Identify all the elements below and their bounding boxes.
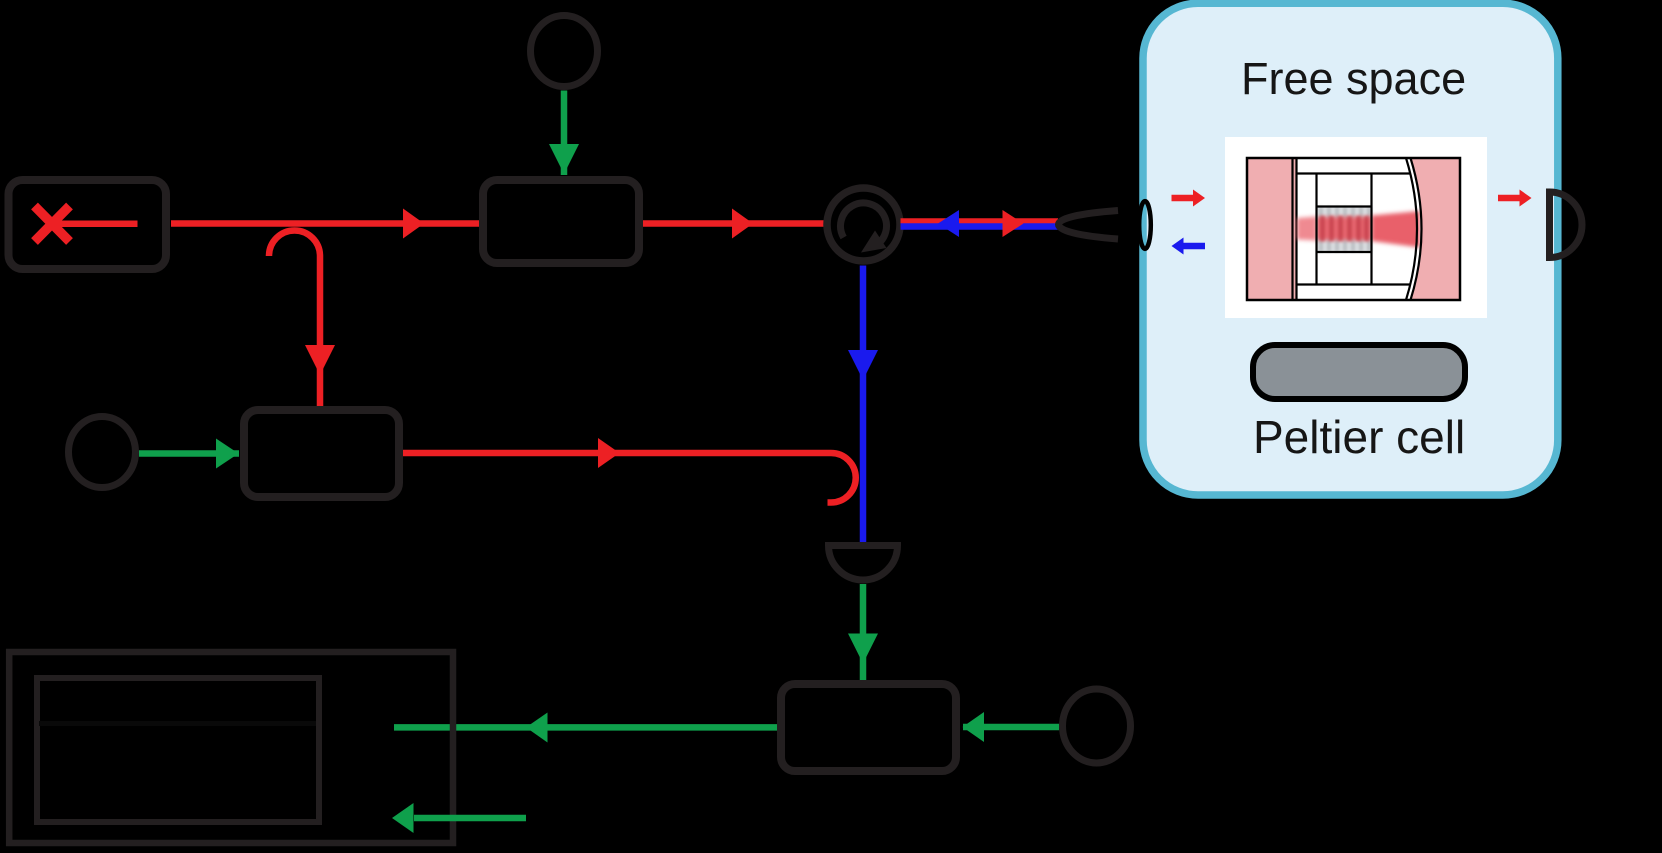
arrow green left 1 — [963, 712, 985, 742]
svg-text:Peltier cell: Peltier cell — [1253, 411, 1465, 463]
driver circle O1 — [531, 16, 598, 87]
beam — [1297, 207, 1420, 253]
wire red circulator to collimator — [901, 218, 1059, 225]
modulator box U1 — [483, 180, 639, 263]
wire blue collimator to circulator — [901, 223, 1059, 230]
arrow green right 1 — [216, 439, 239, 469]
svg-text:Free space: Free space — [1241, 53, 1466, 104]
arrow blue down — [848, 350, 878, 380]
circulator C1 arrowhead — [861, 231, 887, 253]
arrow red right 2 — [732, 209, 753, 239]
controller screen — [37, 678, 319, 822]
wire green PD1 to box U3 — [860, 584, 867, 680]
wire green O3 to U3 — [963, 724, 1059, 731]
wire green O1 to U1 — [561, 91, 568, 176]
controller outer box — [9, 652, 453, 843]
small arrow red in (left) — [1172, 190, 1206, 207]
arrow green left 3 — [392, 803, 414, 833]
wire red main line laser to circulator — [171, 220, 481, 227]
arrow green down 2 — [848, 634, 878, 664]
circulator C1 outer — [827, 188, 900, 261]
wire blue circulator down to PD — [860, 266, 867, 546]
wire red U2 to hook — [403, 450, 831, 457]
photodetector D right — [1550, 192, 1583, 258]
laser X symbol — [35, 206, 70, 242]
arrow red right 3 — [1003, 210, 1024, 237]
wire green U3 to controller — [394, 724, 777, 731]
mixer box U3 — [781, 684, 956, 771]
white panel — [1225, 137, 1487, 318]
free space enclosure — [1143, 3, 1558, 495]
tap hook 2 — [828, 453, 856, 503]
arrow blue left — [938, 210, 959, 237]
modulator box U2 — [244, 410, 399, 497]
collimator horn — [1059, 211, 1119, 240]
arrow green left 2 — [526, 713, 548, 743]
arrow red down — [305, 345, 335, 375]
driver circle O2 — [69, 417, 136, 488]
lens ellipse — [1139, 201, 1151, 249]
driver circle O3 — [1063, 689, 1131, 763]
peltier cell pill — [1253, 345, 1465, 399]
small arrow red out (right) — [1498, 190, 1532, 207]
wire red modulator to circulator — [641, 220, 828, 227]
circulator C1 inner arc — [841, 203, 887, 246]
wire red inside laser box — [52, 221, 138, 228]
wire green O2 to U2 — [139, 450, 239, 457]
arrow red right 4 — [598, 438, 620, 468]
wire green feedback — [414, 815, 526, 822]
photodetector dome PD1 — [829, 546, 898, 581]
arrow green down 1 — [549, 144, 579, 174]
arrow red right 1 — [403, 209, 424, 239]
tap hook 1 — [269, 231, 320, 406]
faint trace — [39, 721, 316, 726]
laser box L1 — [9, 180, 167, 269]
small arrow blue out (left) — [1172, 238, 1206, 255]
